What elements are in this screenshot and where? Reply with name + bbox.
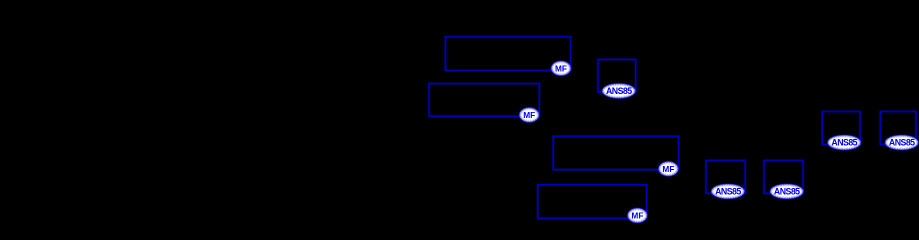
dialect box H (ANS85): [822, 111, 860, 144]
dialect box A (MF): [445, 37, 570, 71]
svg-text:ANS85: ANS85: [774, 186, 800, 196]
dialect box F (ANS85): [706, 160, 745, 193]
dialect box E (MF): [538, 185, 647, 219]
svg-text:MF: MF: [523, 110, 535, 120]
svg-text:ANS85: ANS85: [715, 186, 741, 196]
svg-text:ANS85: ANS85: [831, 138, 857, 148]
flag oval ANS85 on box F: [712, 185, 744, 199]
svg-text:MF: MF: [555, 63, 567, 73]
dialect box C (MF): [429, 84, 539, 117]
dialect box B (ANS85): [598, 59, 636, 92]
flag oval ANS85 on box H: [828, 136, 860, 150]
dialect box I (ANS85): [880, 111, 916, 144]
flag oval MF on box C: [520, 108, 539, 122]
flag oval ANS85 on box I: [886, 136, 918, 150]
flag oval MF on box D: [659, 162, 678, 176]
flag oval MF on box A: [552, 62, 571, 76]
flag oval MF on box E: [628, 209, 647, 223]
dialect box D (MF): [553, 136, 679, 170]
flag oval ANS85 on box B: [603, 84, 635, 98]
dialect box G (ANS85): [764, 160, 803, 193]
flag oval ANS85 on box G: [771, 185, 803, 199]
svg-text:ANS85: ANS85: [606, 86, 632, 96]
svg-text:ANS85: ANS85: [889, 138, 915, 148]
svg-text:MF: MF: [662, 164, 674, 174]
svg-text:MF: MF: [631, 210, 643, 220]
